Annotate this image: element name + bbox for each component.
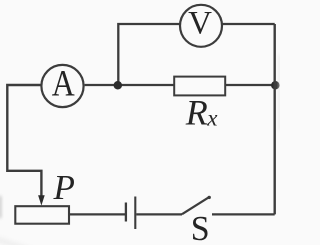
battery cell long plate (134, 197, 136, 230)
rheostat wiper arrow head (38, 195, 45, 205)
switch label S (191, 210, 210, 245)
wire: rheostat to battery (69, 213, 125, 215)
wire: left rail from ammeter down to wiper (7, 85, 41, 198)
wire: switch contact to right rail (212, 213, 275, 215)
svg-text:P: P (53, 168, 75, 207)
resistor Rx body (174, 77, 225, 96)
scan smudge bottom-left (0, 239, 30, 245)
scan smudge right edge (279, 55, 281, 130)
node junction dot right (271, 81, 280, 90)
wire: right rail (274, 24, 276, 214)
ammeter A1 circle (41, 65, 83, 107)
svg-text:R: R (185, 93, 208, 133)
ammeter label A (52, 64, 75, 105)
switch S blade (open) (182, 197, 209, 214)
switch blade tip dot (208, 196, 211, 199)
svg-text:x: x (206, 106, 218, 131)
svg-text:S: S (191, 210, 210, 245)
svg-text:V: V (188, 6, 212, 42)
svg-text:A: A (52, 64, 75, 105)
scan smudge left edge (0, 196, 1, 218)
node junction dot left (114, 81, 123, 90)
wire: top rail right segment (voltmeter to top-right corner) (222, 23, 275, 25)
wire: junction up and top rail to voltmeter (118, 24, 180, 85)
rheostat P body (15, 206, 69, 224)
wire: resistor to right rail (226, 84, 275, 86)
wire: battery to switch pivot (136, 213, 182, 215)
battery cell short plate (125, 203, 127, 222)
wire: ammeter through junction to resistor (85, 84, 175, 86)
voltmeter V1 circle (180, 5, 222, 47)
